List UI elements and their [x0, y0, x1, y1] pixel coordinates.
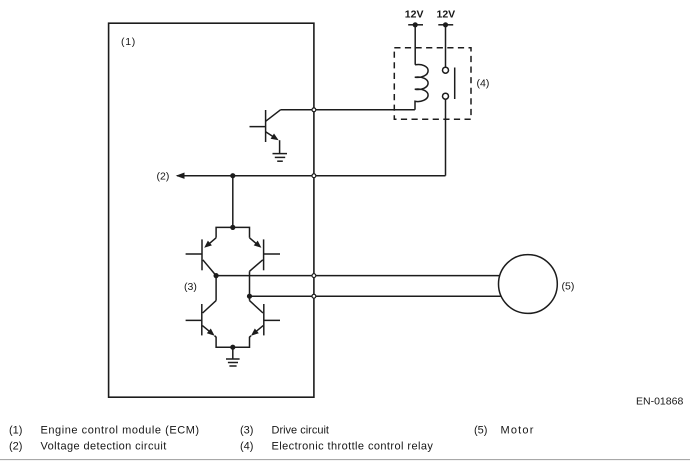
relay switch blade	[454, 68, 456, 100]
transistor Q1 (relay drive)	[250, 110, 281, 142]
terminal open circle ECM edge (2) wire	[312, 174, 316, 178]
wire Q1 emitter to ground	[279, 140, 281, 153]
12V terminal 2 bar	[438, 24, 453, 26]
wire terminal 2 to switch	[445, 25, 447, 67]
ECM box (1)	[109, 23, 314, 397]
relay switch contact circle top	[443, 67, 449, 73]
svg-text:(3): (3)	[240, 425, 253, 437]
relay box (4) dashed	[394, 48, 471, 119]
node A dot (left bridge output)	[214, 273, 219, 278]
wire H-bridge top bar	[216, 227, 249, 237]
wire Q1 collector to relay coil	[281, 109, 415, 111]
wire bottom node to ground	[232, 347, 234, 359]
svg-text:(2): (2)	[157, 171, 170, 183]
wire junction down to H-bridge top	[232, 176, 234, 228]
terminal open circle ECM edge lower motor lead	[312, 294, 316, 298]
transistor Q4 (bottom-left NPN)	[186, 301, 233, 348]
svg-text:12V: 12V	[405, 9, 424, 21]
svg-text:Engine control module (ECM): Engine control module (ECM)	[41, 425, 200, 437]
page rule bottom	[0, 459, 690, 461]
svg-text:(4): (4)	[477, 78, 490, 90]
svg-text:12V: 12V	[437, 9, 456, 21]
terminal open circle ECM edge coil wire	[312, 108, 316, 112]
12V terminal 2 dot	[443, 22, 448, 27]
wire switch down to (2) line	[445, 99, 447, 176]
relay switch contact circle bottom	[443, 93, 449, 99]
svg-text:(1): (1)	[121, 36, 136, 48]
svg-text:EN-01868: EN-01868	[636, 395, 683, 407]
wire lower motor lead	[250, 295, 501, 297]
svg-text:(1): (1)	[9, 425, 22, 437]
motor (5)	[499, 255, 558, 314]
svg-text:Motor: Motor	[501, 425, 535, 437]
wire node A down to Q4	[215, 276, 217, 301]
svg-text:Drive circuit: Drive circuit	[272, 425, 329, 437]
transistor Q2 (top-left PNP)	[186, 238, 217, 276]
svg-text:(2): (2)	[9, 441, 22, 453]
H-bridge top node dot	[230, 225, 235, 230]
12V terminal 1 dot	[413, 22, 418, 27]
wire (2) voltage detection line with arrow	[176, 173, 446, 179]
terminal open circle ECM edge upper motor lead	[312, 274, 316, 278]
svg-text:(5): (5)	[474, 425, 487, 437]
svg-text:(5): (5)	[562, 280, 575, 292]
12V terminal 1 bar	[408, 24, 423, 26]
ground below Q1	[273, 154, 288, 162]
transistor Q3 (top-right PNP)	[250, 238, 281, 301]
svg-text:Electronic throttle control re: Electronic throttle control relay	[272, 441, 434, 453]
svg-text:Voltage detection circuit: Voltage detection circuit	[41, 441, 167, 453]
H-bridge bottom node dot	[230, 345, 235, 350]
svg-text:(3): (3)	[184, 281, 197, 293]
wire upper motor lead	[216, 275, 500, 277]
node B dot (right bridge output)	[247, 294, 252, 299]
wire terminal 1 to relay coil	[414, 25, 416, 65]
svg-text:(4): (4)	[240, 441, 253, 453]
transistor Q5 (bottom-right NPN)	[233, 301, 280, 348]
relay coil	[415, 65, 428, 110]
ground below H-bridge	[226, 359, 240, 366]
junction dot on (2) line	[230, 173, 235, 178]
